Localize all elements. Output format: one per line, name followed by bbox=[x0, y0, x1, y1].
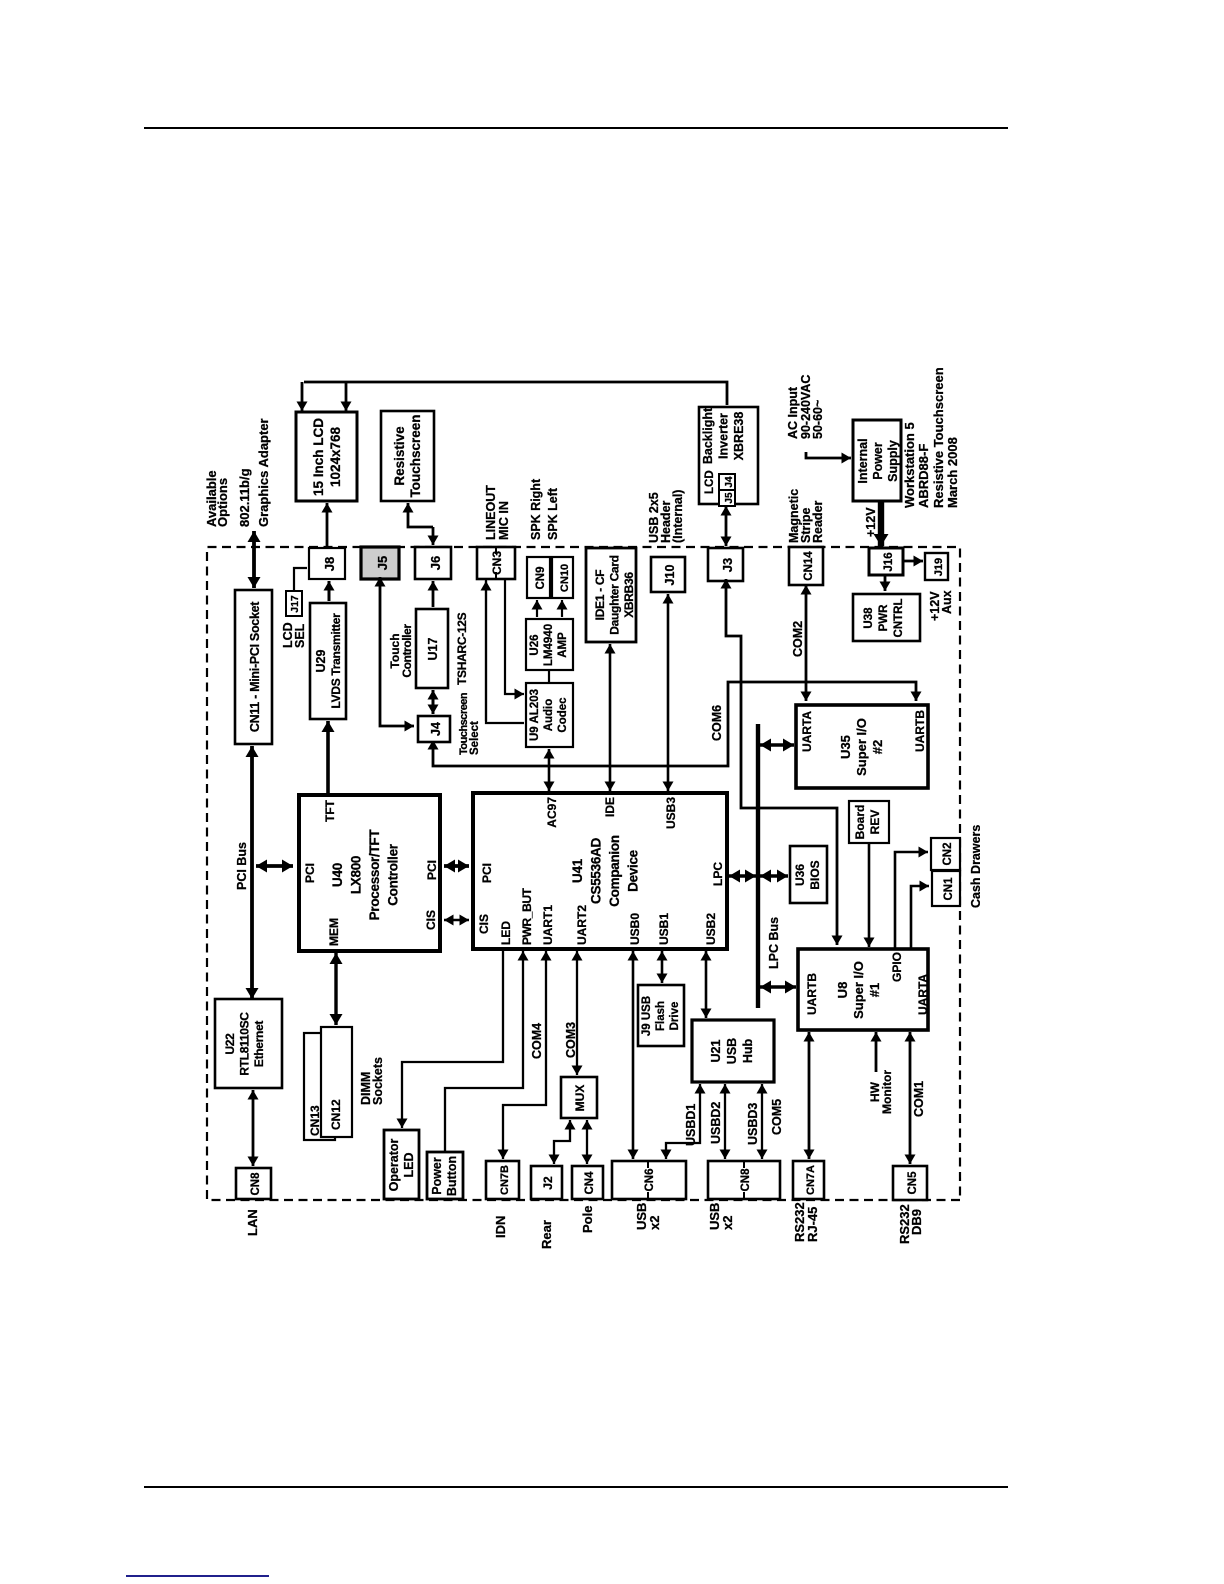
svg-text:UARTB: UARTB bbox=[913, 710, 927, 752]
svg-text:PWR_BUT: PWR_BUT bbox=[520, 887, 534, 945]
svg-text:LED: LED bbox=[499, 921, 513, 945]
svg-text:Supply: Supply bbox=[886, 440, 900, 482]
svg-text:CN6: CN6 bbox=[644, 1168, 656, 1191]
svg-text:LCD: LCD bbox=[704, 470, 716, 494]
svg-text:CN3: CN3 bbox=[490, 551, 504, 575]
svg-text:COM5: COM5 bbox=[770, 1099, 784, 1135]
svg-text:LX800: LX800 bbox=[349, 856, 364, 894]
svg-text:AC97: AC97 bbox=[545, 797, 559, 828]
svg-text:J8: J8 bbox=[322, 557, 337, 571]
svg-text:CIS: CIS bbox=[424, 910, 438, 930]
svg-text:COM1: COM1 bbox=[912, 1081, 926, 1117]
svg-text:AC Input: AC Input bbox=[786, 386, 800, 439]
svg-text:LPC Bus: LPC Bus bbox=[767, 917, 781, 969]
svg-text:USBD1: USBD1 bbox=[684, 1104, 698, 1146]
svg-text:CN8: CN8 bbox=[740, 1168, 752, 1192]
svg-text:CN9: CN9 bbox=[535, 566, 547, 589]
svg-text:Power: Power bbox=[871, 442, 885, 480]
svg-text:U21: U21 bbox=[709, 1039, 723, 1062]
svg-text:CN13: CN13 bbox=[308, 1105, 322, 1136]
svg-text:CNTRL: CNTRL bbox=[893, 599, 905, 638]
svg-text:J2: J2 bbox=[541, 1176, 555, 1190]
svg-text:Power: Power bbox=[430, 1157, 444, 1195]
svg-text:1024x768: 1024x768 bbox=[328, 426, 343, 487]
svg-text:TSHARC-12S: TSHARC-12S bbox=[455, 612, 469, 685]
svg-text:U26: U26 bbox=[529, 634, 541, 655]
svg-text:UARTB: UARTB bbox=[805, 973, 819, 1015]
svg-text:15 Inch LCD: 15 Inch LCD bbox=[311, 418, 326, 496]
svg-text:Codec: Codec bbox=[557, 697, 569, 733]
svg-text:Hub: Hub bbox=[741, 1038, 755, 1063]
svg-text:TFT: TFT bbox=[323, 799, 337, 822]
svg-text:USBD2: USBD2 bbox=[709, 1102, 723, 1144]
svg-text:Cash Drawers: Cash Drawers bbox=[969, 825, 980, 908]
svg-text:J5: J5 bbox=[724, 492, 735, 504]
svg-text:U38: U38 bbox=[863, 607, 875, 629]
svg-text:UARTA: UARTA bbox=[800, 711, 814, 752]
svg-text:Backlight: Backlight bbox=[701, 407, 715, 464]
svg-text:(Internal): (Internal) bbox=[671, 490, 685, 543]
svg-text:XBRE38: XBRE38 bbox=[732, 412, 746, 461]
svg-text:U41: U41 bbox=[570, 858, 585, 883]
svg-text:CN5: CN5 bbox=[907, 1171, 919, 1195]
svg-text:Select: Select bbox=[469, 721, 481, 755]
svg-text:Board: Board bbox=[853, 805, 867, 840]
svg-text:CN12: CN12 bbox=[329, 1099, 343, 1130]
svg-text:J9 USB: J9 USB bbox=[641, 996, 653, 1036]
svg-text:GPIO: GPIO bbox=[890, 952, 904, 982]
svg-text:Reader: Reader bbox=[811, 500, 825, 543]
svg-text:COM4: COM4 bbox=[530, 1023, 544, 1059]
svg-text:J3: J3 bbox=[720, 558, 735, 572]
svg-text:Rear: Rear bbox=[539, 1220, 554, 1249]
svg-text:Device: Device bbox=[626, 849, 641, 892]
svg-text:AMP: AMP bbox=[557, 632, 569, 658]
svg-text:DB9: DB9 bbox=[909, 1209, 924, 1235]
svg-text:CN7B: CN7B bbox=[499, 1165, 511, 1195]
svg-text:COM2: COM2 bbox=[791, 621, 805, 657]
svg-text:+12V: +12V bbox=[864, 507, 878, 537]
svg-text:USB2: USB2 bbox=[704, 913, 718, 945]
svg-text:ABRD88-F: ABRD88-F bbox=[916, 444, 931, 508]
svg-text:PCI: PCI bbox=[425, 860, 439, 880]
svg-text:U17: U17 bbox=[426, 637, 440, 660]
svg-text:SEL: SEL bbox=[293, 623, 307, 648]
svg-text:RTL8110SC: RTL8110SC bbox=[238, 1012, 252, 1076]
svg-text:CN7A: CN7A bbox=[805, 1165, 817, 1195]
svg-text:J16: J16 bbox=[883, 552, 895, 571]
svg-text:J19: J19 bbox=[933, 558, 945, 576]
svg-text:J17: J17 bbox=[289, 595, 301, 613]
svg-text:Controller: Controller bbox=[386, 843, 401, 906]
svg-text:Graphics Adapter: Graphics Adapter bbox=[256, 418, 271, 527]
svg-text:Controller: Controller bbox=[400, 624, 414, 678]
svg-text:Drive: Drive bbox=[669, 1002, 681, 1031]
svg-text:Inverter: Inverter bbox=[717, 413, 731, 459]
svg-text:Internal: Internal bbox=[856, 438, 870, 483]
svg-text:Button: Button bbox=[445, 1156, 459, 1196]
svg-text:U29: U29 bbox=[314, 649, 328, 672]
svg-text:Workstation 5: Workstation 5 bbox=[902, 422, 917, 508]
svg-text:CN1: CN1 bbox=[943, 877, 955, 901]
svg-text:U8: U8 bbox=[835, 982, 850, 999]
svg-text:PCI: PCI bbox=[480, 863, 494, 883]
svg-text:MIC IN: MIC IN bbox=[497, 501, 511, 540]
svg-text:J4: J4 bbox=[724, 476, 735, 488]
svg-text:COM3: COM3 bbox=[564, 1022, 578, 1058]
svg-text:#2: #2 bbox=[870, 740, 885, 754]
svg-text:CS5536AD: CS5536AD bbox=[589, 838, 604, 904]
svg-text:MUX: MUX bbox=[573, 1085, 587, 1112]
svg-text:U22: U22 bbox=[223, 1033, 237, 1055]
svg-text:Super I/O: Super I/O bbox=[851, 961, 866, 1019]
svg-text:Daughter Card: Daughter Card bbox=[608, 555, 622, 634]
svg-text:Touchscreen: Touchscreen bbox=[408, 414, 423, 497]
svg-text:U36: U36 bbox=[793, 864, 807, 886]
svg-text:USB1: USB1 bbox=[657, 913, 671, 945]
svg-text:REV: REV bbox=[868, 810, 882, 835]
svg-text:SPK Left: SPK Left bbox=[546, 487, 560, 540]
svg-text:J6: J6 bbox=[428, 556, 443, 570]
svg-text:Ethernet: Ethernet bbox=[252, 1021, 266, 1068]
svg-text:Super I/O: Super I/O bbox=[854, 718, 869, 776]
svg-text:USBD3: USBD3 bbox=[746, 1103, 760, 1145]
svg-text:Resistive: Resistive bbox=[392, 426, 407, 486]
svg-text:Companion: Companion bbox=[607, 835, 622, 907]
svg-text:USB0: USB0 bbox=[628, 913, 642, 945]
svg-text:Flash: Flash bbox=[655, 1001, 667, 1031]
svg-text:BIOS: BIOS bbox=[808, 860, 822, 889]
svg-text:PCI Bus: PCI Bus bbox=[235, 842, 249, 890]
svg-text:RJ-45: RJ-45 bbox=[805, 1207, 820, 1242]
svg-text:CN8: CN8 bbox=[250, 1172, 262, 1196]
svg-text:LVDS Transmitter: LVDS Transmitter bbox=[329, 613, 343, 709]
svg-text:CN2: CN2 bbox=[942, 842, 954, 865]
svg-text:IDN: IDN bbox=[493, 1216, 508, 1238]
svg-text:Sockets: Sockets bbox=[371, 1057, 385, 1105]
svg-text:LED: LED bbox=[402, 1153, 416, 1178]
svg-text:Resistive Touchscreen: Resistive Touchscreen bbox=[931, 368, 946, 508]
svg-text:x2: x2 bbox=[647, 1216, 662, 1230]
svg-text:CN4: CN4 bbox=[584, 1171, 596, 1195]
svg-text:UART2: UART2 bbox=[575, 905, 589, 945]
svg-text:UARTA: UARTA bbox=[916, 974, 930, 1015]
svg-text:IDE1 - CF: IDE1 - CF bbox=[593, 570, 607, 621]
svg-text:802.11b/g: 802.11b/g bbox=[237, 468, 252, 527]
svg-text:CN10: CN10 bbox=[559, 564, 571, 592]
svg-text:LPC: LPC bbox=[711, 862, 725, 886]
svg-text:U40: U40 bbox=[330, 863, 345, 887]
svg-text:LM4940: LM4940 bbox=[543, 624, 555, 666]
svg-text:50-60~: 50-60~ bbox=[811, 400, 825, 439]
svg-text:x2: x2 bbox=[720, 1216, 735, 1230]
svg-text:COM6: COM6 bbox=[710, 705, 724, 741]
svg-text:MEM: MEM bbox=[327, 918, 341, 946]
svg-text:Options: Options bbox=[215, 478, 230, 527]
svg-text:U35: U35 bbox=[838, 735, 853, 759]
svg-text:USB3: USB3 bbox=[664, 797, 678, 829]
svg-text:U9 AL203: U9 AL203 bbox=[529, 689, 541, 741]
svg-text:SPK Right: SPK Right bbox=[529, 478, 543, 540]
svg-text:J10: J10 bbox=[663, 565, 677, 586]
svg-text:USB: USB bbox=[725, 1038, 739, 1064]
svg-text:CIS: CIS bbox=[477, 914, 491, 934]
svg-text:PCI: PCI bbox=[303, 863, 317, 883]
svg-text:J4: J4 bbox=[429, 722, 443, 736]
svg-text:CN14: CN14 bbox=[803, 551, 815, 581]
svg-text:IDE: IDE bbox=[603, 797, 617, 817]
svg-text:LINEOUT: LINEOUT bbox=[484, 485, 498, 540]
svg-text:LAN: LAN bbox=[245, 1209, 260, 1236]
svg-text:Aux: Aux bbox=[940, 590, 954, 614]
svg-text:Processor/TFT: Processor/TFT bbox=[367, 829, 382, 921]
svg-text:#1: #1 bbox=[867, 983, 882, 997]
svg-text:XBRB36: XBRB36 bbox=[622, 572, 636, 618]
svg-text:Operator: Operator bbox=[387, 1138, 401, 1191]
svg-text:UART1: UART1 bbox=[541, 905, 555, 945]
svg-text:CN11 - Mini-PCI Socket: CN11 - Mini-PCI Socket bbox=[248, 601, 262, 732]
svg-text:J5: J5 bbox=[375, 556, 390, 570]
svg-text:Pole: Pole bbox=[580, 1206, 595, 1233]
svg-text:March 2008: March 2008 bbox=[945, 437, 960, 508]
svg-text:Audio: Audio bbox=[543, 699, 555, 732]
svg-text:Monitor: Monitor bbox=[880, 1070, 894, 1114]
svg-text:PWR: PWR bbox=[878, 604, 890, 632]
